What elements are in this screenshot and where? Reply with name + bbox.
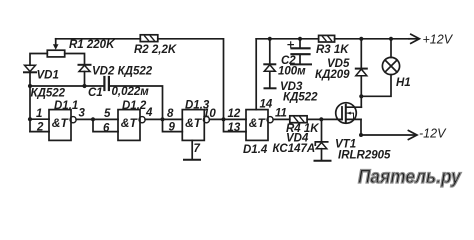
node VD1 anode — [28, 84, 32, 88]
svg-text:R2 2,2K: R2 2,2K — [134, 44, 177, 56]
wire R4 to gate — [307, 118, 342, 120]
lamp H1 — [361, 39, 399, 97]
svg-text:IRLR2905: IRLR2905 — [338, 150, 391, 162]
node pin10/12 — [221, 117, 225, 121]
resistor R2 — [140, 35, 158, 42]
svg-text:12: 12 — [228, 108, 241, 120]
svg-text:VD2 КД522: VD2 КД522 — [92, 66, 153, 78]
svg-text:10: 10 — [203, 108, 216, 120]
ground pin7 — [184, 140, 200, 159]
svg-text:КС147А: КС147А — [273, 143, 316, 155]
node C2 top — [298, 37, 302, 41]
svg-text:D1.2: D1.2 — [122, 100, 147, 112]
node gate/VD4 — [319, 117, 323, 121]
svg-text:13: 13 — [228, 122, 241, 134]
svg-text:Паятель.ру: Паятель.ру — [358, 166, 462, 187]
diode VD2 (cathode bar top) — [79, 65, 91, 86]
wire top rail left (R1 wiper to R2 to node 12) — [56, 39, 224, 119]
wire supply rail right — [256, 38, 409, 40]
svg-text:9: 9 — [169, 122, 176, 134]
wire pin4 to node 8 — [145, 118, 182, 120]
svg-text:R3 1K: R3 1K — [316, 44, 349, 56]
node pin3/5 — [91, 117, 95, 121]
wire pin11 to R4 — [273, 118, 290, 120]
svg-text:R1 220K: R1 220K — [69, 39, 115, 51]
node VD2 anode — [82, 84, 86, 88]
gate D1.1 — [49, 110, 76, 141]
svg-text:КД522: КД522 — [31, 88, 66, 100]
node pin4/8/C1 — [160, 117, 164, 121]
node VD5 top — [359, 37, 363, 41]
wire pin1 — [30, 118, 49, 120]
wire R1 right lead to VD2 — [65, 54, 85, 65]
svg-text:8: 8 — [167, 108, 174, 120]
diode VD1 (anode top, cathode bar bottom) — [24, 65, 36, 86]
svg-text:H1: H1 — [396, 77, 411, 89]
svg-text:2: 2 — [36, 122, 44, 134]
wire pin10 to node 12 — [209, 118, 246, 120]
svg-text:КД522: КД522 — [283, 92, 318, 104]
svg-text:&T: &T — [249, 116, 267, 130]
node VD3 top — [268, 37, 272, 41]
resistor R4 — [290, 116, 307, 123]
svg-text:&T: &T — [52, 116, 70, 130]
wire left input bus — [29, 86, 31, 132]
node lamp top — [389, 37, 393, 41]
svg-text:3: 3 — [79, 108, 86, 120]
svg-text:4: 4 — [145, 107, 153, 119]
svg-text:&T: &T — [121, 116, 139, 130]
diode VD5 (cathode top) — [356, 39, 367, 97]
wire -12V arrow — [408, 131, 417, 140]
svg-text:-12V: -12V — [419, 127, 447, 141]
wire pin13 stub — [224, 119, 247, 131]
wire pin6 stub — [93, 119, 118, 131]
svg-text:C1: C1 — [88, 87, 103, 99]
capacitor C2 — [288, 39, 311, 65]
svg-text:D1.1: D1.1 — [54, 100, 78, 112]
svg-text:6: 6 — [103, 123, 110, 135]
svg-text:100м: 100м — [278, 66, 306, 78]
svg-text:VD1: VD1 — [37, 70, 59, 82]
wire +12V arrow — [409, 34, 419, 43]
wire R1 left lead to VD1 — [30, 54, 47, 66]
svg-text:&T: &T — [185, 116, 203, 130]
gate D1.4 — [246, 110, 273, 141]
zener VD4 (cathode top) — [315, 119, 331, 161]
wire pin2 stub — [30, 131, 49, 133]
svg-text:КД209: КД209 — [315, 69, 350, 81]
resistor R3 — [319, 35, 335, 42]
wire pin14 — [255, 39, 257, 110]
wire anode bus y=86 — [30, 85, 103, 87]
svg-text:14: 14 — [260, 99, 273, 111]
node drain — [359, 94, 363, 98]
transistor VT1 MOSFET — [336, 96, 417, 137]
svg-text:7: 7 — [194, 143, 201, 155]
diode VD3 (cathode top, anode to ground) — [264, 39, 275, 89]
capacitor C1 — [104, 77, 109, 90]
svg-text:11: 11 — [275, 108, 287, 120]
wire pin3 to D1.2 — [76, 118, 118, 120]
svg-text:5: 5 — [104, 108, 111, 120]
svg-text:D1.4: D1.4 — [243, 144, 268, 156]
svg-text:+12V: +12V — [423, 33, 454, 47]
svg-text:0,022м: 0,022м — [112, 86, 150, 98]
gate D1.3 — [182, 110, 209, 141]
svg-text:1: 1 — [36, 108, 42, 120]
label VD1 value — [29, 88, 70, 98]
wire C1 to node 4/8 — [110, 86, 163, 119]
resistor R1 (trimmer) — [47, 39, 64, 57]
gate D1.2 — [118, 110, 145, 141]
node pin1 junction — [28, 117, 32, 121]
wire pin9 stub — [163, 119, 183, 131]
